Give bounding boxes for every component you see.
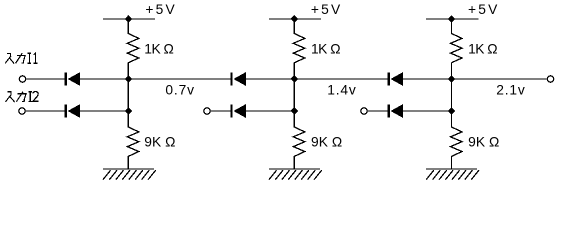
diode D6 (388, 105, 390, 118)
wire input to diode D6 (367, 110, 388, 112)
diode D1 (65, 73, 67, 86)
wire vertical node segment stage 2 (293, 62, 295, 127)
+5V power rail stage 3 (426, 18, 478, 20)
node junction row1 stage 1 (125, 75, 133, 83)
diode D5 (388, 73, 390, 86)
output terminal (547, 76, 553, 82)
wire input to diode D4 (210, 110, 231, 112)
wire resistor bottom lead stage 2 (293, 156, 295, 169)
node junction row2 stage 1 (125, 107, 133, 115)
node junction row1 stage 3 (448, 75, 456, 83)
wire vertical node segment stage 3 (451, 62, 453, 127)
wire input I2 to diode D2 (25, 110, 65, 112)
node junction row2 stage 2 (291, 107, 299, 115)
+5V power rail stage 2 (269, 18, 321, 20)
node junction row2 stage 3 (448, 107, 456, 115)
svg-text:+5V: +5V (468, 2, 500, 17)
svg-text:1K Ω: 1K Ω (468, 41, 497, 56)
svg-text:+5V: +5V (145, 2, 177, 17)
wire input I1 to diode D1 (26, 78, 65, 80)
ground stage 1 (103, 168, 154, 170)
wire diode D2 to node stage 1 (80, 110, 128, 112)
diode D3 (231, 73, 233, 86)
input terminal stage 2 row 2 (204, 108, 210, 114)
svg-text:2.1v: 2.1v (496, 82, 525, 97)
diode D4 (231, 105, 233, 118)
wire resistor top lead stage 1 (127, 19, 129, 34)
wire diode D3 to node stage 2 and on to diode D5 (246, 78, 388, 80)
wire resistor top lead stage 2 (293, 19, 295, 34)
svg-text:9K Ω: 9K Ω (144, 135, 175, 150)
wire diode D4 to node stage 2 (246, 110, 294, 112)
resistor 9K&#937; stage 2 (293, 127, 305, 156)
svg-text:0.7v: 0.7v (165, 82, 194, 97)
input terminal I1 (19, 76, 25, 82)
wire resistor bottom lead stage 3 (451, 156, 453, 169)
resistor 1K&#937; stage 1 (127, 34, 139, 63)
node junction on +5V rail stage 3 (448, 15, 456, 23)
ground stage 3 (426, 168, 477, 170)
resistor 9K&#937; stage 3 (451, 127, 463, 156)
svg-text:1K Ω: 1K Ω (144, 41, 173, 56)
svg-text:9K Ω: 9K Ω (468, 135, 499, 150)
resistor 1K&#937; stage 3 (451, 34, 463, 63)
wire diode D1 to node stage 1 and on to diode D3 (80, 78, 231, 80)
wire resistor top lead stage 3 (451, 19, 453, 34)
label input 入力I1 (5, 53, 37, 64)
node junction on +5V rail stage 1 (125, 15, 133, 23)
input terminal stage 3 row 2 (361, 108, 367, 114)
wire diode D5 to node stage 3 and output terminal (403, 78, 547, 80)
wire vertical node segment stage 1 (127, 62, 129, 127)
svg-text:+5V: +5V (311, 2, 343, 17)
+5V power rail stage 1 (103, 18, 155, 20)
input terminal I2 (19, 108, 25, 114)
resistor 9K&#937; stage 1 (127, 127, 139, 156)
svg-text:1K Ω: 1K Ω (311, 41, 340, 56)
resistor 1K&#937; stage 2 (293, 34, 305, 63)
node junction row1 stage 2 (291, 75, 299, 83)
wire diode D6 to node stage 3 (403, 110, 452, 112)
ground stage 2 (269, 168, 320, 170)
svg-text:1.4v: 1.4v (327, 82, 356, 97)
label input 入力I2 (6, 92, 39, 103)
diode D2 (65, 105, 67, 118)
svg-text:9K Ω: 9K Ω (311, 135, 342, 150)
wire resistor bottom lead stage 1 (127, 156, 129, 169)
node junction on +5V rail stage 2 (291, 15, 299, 23)
